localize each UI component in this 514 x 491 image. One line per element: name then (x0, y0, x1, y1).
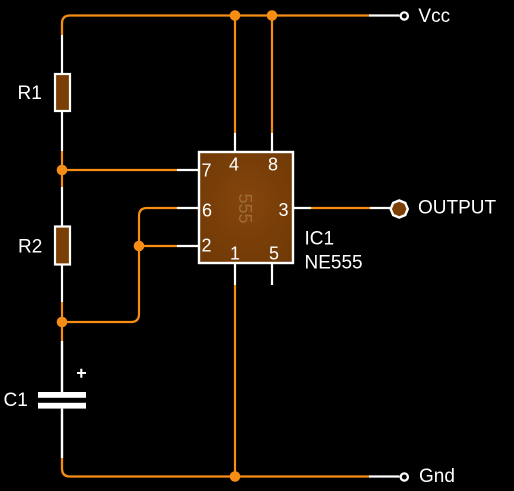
wire orange R1 to node A (61, 151, 63, 170)
svg-text:555: 555 (235, 193, 255, 223)
wire R1 bottom lead (61, 111, 63, 151)
wire Vcc top rail (62, 16, 369, 36)
wire C1 top lead (61, 341, 63, 393)
wire pin 1 stub (234, 263, 236, 285)
node E junction pin 8 on rail (267, 10, 278, 21)
svg-text:OUTPUT: OUTPUT (418, 198, 497, 219)
node C junction pin2 branch (134, 241, 145, 252)
svg-text:3: 3 (278, 200, 288, 220)
IC U1 (IC1 NE555 timer) body (199, 152, 293, 263)
wire pin 5 stub (271, 263, 273, 285)
wire node B to pin 6 (62, 208, 177, 322)
wire pin 4 stub (234, 133, 236, 152)
wire pin 4 vertical (234, 16, 236, 134)
svg-text:NE555: NE555 (305, 253, 363, 274)
svg-text:R1: R1 (18, 83, 42, 104)
node B junction R2/C1 (57, 317, 68, 328)
Gnd terminal (401, 473, 408, 480)
wire pin 3 stub (294, 207, 311, 209)
C1 polarity plus (77, 369, 86, 378)
wire pin 2 stub (177, 245, 199, 247)
svg-text:8: 8 (268, 155, 278, 175)
node A junction R1/R2/pin7 (57, 165, 68, 176)
wire Gnd bottom rail (62, 458, 369, 477)
svg-text:IC1: IC1 (305, 229, 335, 250)
wire pin 8 vertical (271, 16, 273, 134)
Vcc terminal (401, 12, 408, 19)
wire pin 6 stub (177, 207, 199, 209)
wire pin 1 to ground rail (234, 285, 236, 477)
wire orange R2 to node B (61, 302, 63, 322)
wire node A to pin 7 (62, 169, 177, 171)
svg-text:7: 7 (201, 160, 211, 180)
svg-text:Gnd: Gnd (419, 466, 455, 487)
node F junction pin1/rail (230, 471, 241, 482)
wire node C to pin 2 (139, 245, 177, 247)
wire white lead to output terminal (370, 207, 390, 209)
wire R2 bottom lead (61, 265, 63, 303)
svg-text:Vcc: Vcc (418, 6, 450, 27)
wire white lead to Gnd terminal (369, 475, 400, 477)
wire white lead to Vcc terminal (369, 14, 400, 16)
resistor R2 (55, 227, 70, 265)
wire R1 top lead (61, 35, 63, 74)
svg-text:4: 4 (229, 155, 239, 175)
svg-text:6: 6 (202, 200, 212, 220)
svg-text:R2: R2 (18, 236, 42, 257)
wire node B down (61, 322, 63, 341)
capacitor C1 (38, 392, 86, 409)
wire pin 7 stub (177, 169, 199, 171)
svg-text:1: 1 (230, 244, 240, 264)
resistor R1 (55, 74, 70, 111)
wire pin 8 stub (271, 133, 273, 152)
svg-text:5: 5 (269, 244, 279, 264)
svg-text:2: 2 (201, 235, 211, 255)
wire C1 bottom lead (61, 409, 63, 458)
svg-text:C1: C1 (4, 390, 28, 411)
wire R2 top lead (61, 187, 63, 226)
wire pin 3 output segment (311, 207, 370, 209)
wire node A down (61, 170, 63, 187)
OUTPUT terminal octagon (389, 199, 409, 219)
node D junction pin 4 on rail (230, 10, 241, 21)
